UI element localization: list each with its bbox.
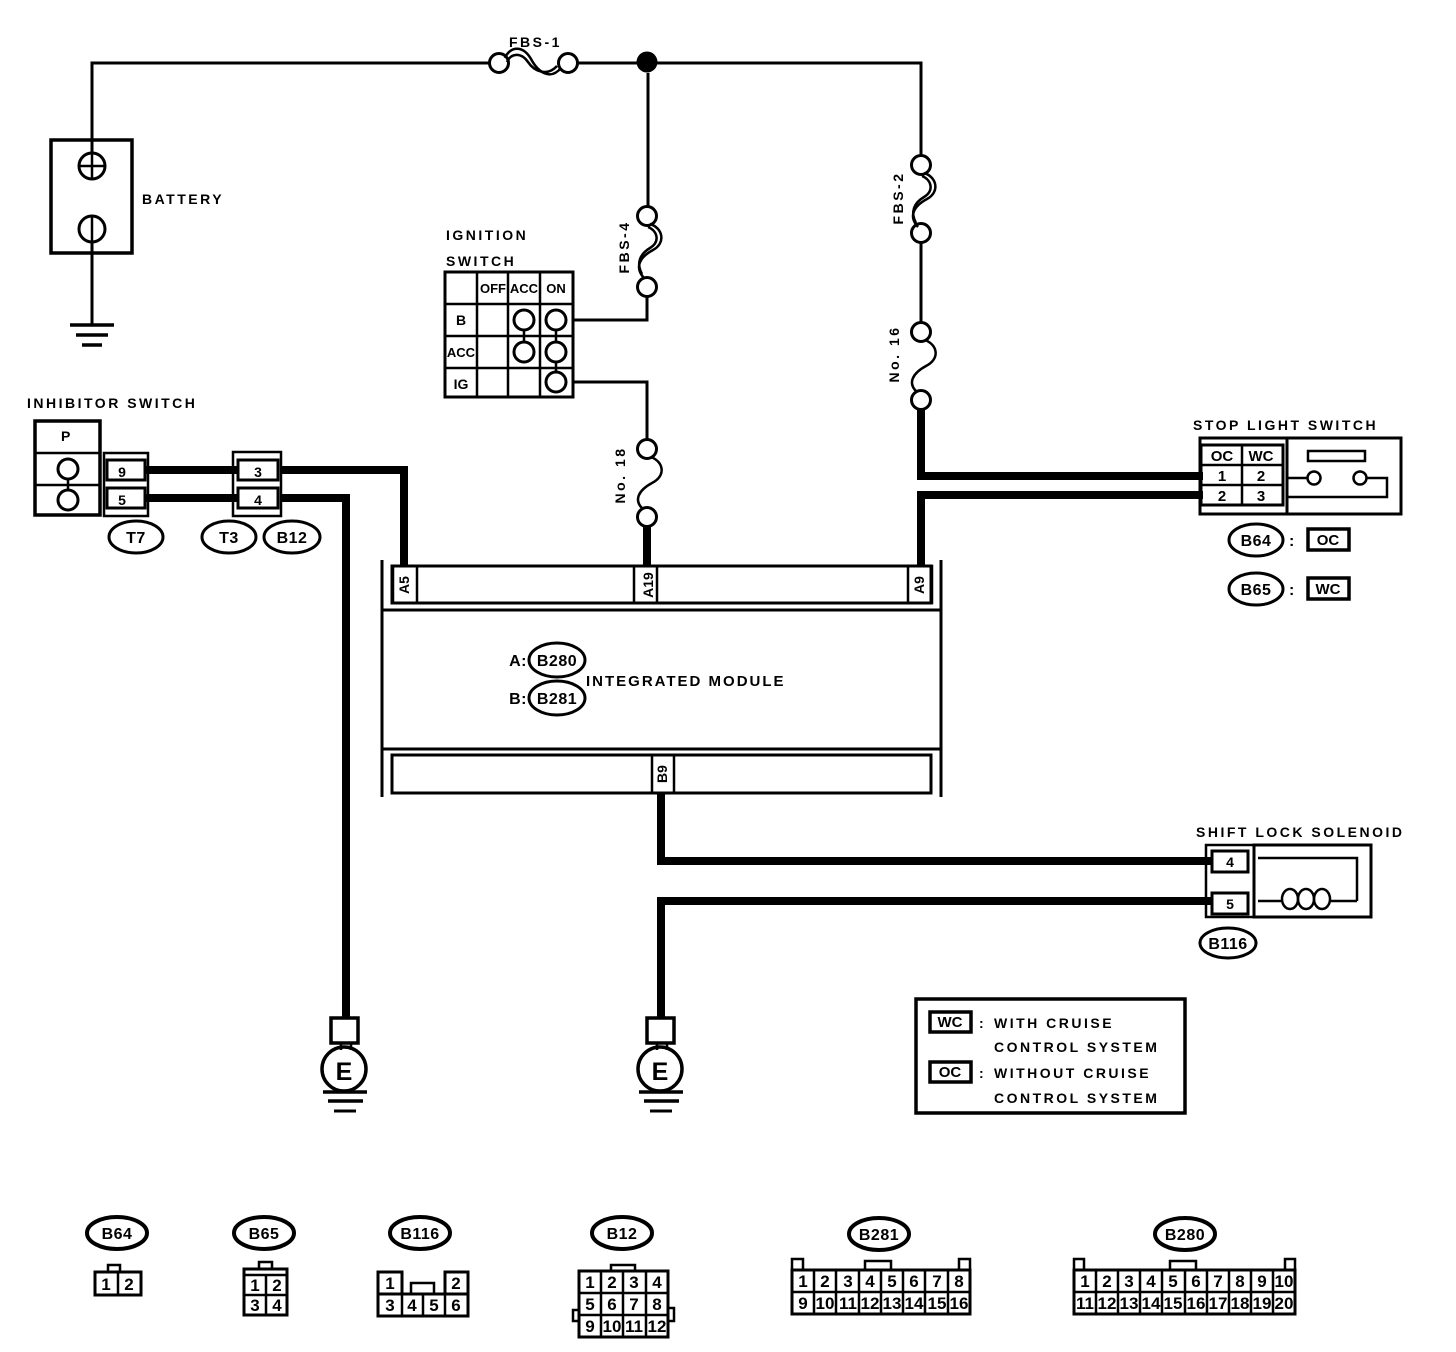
svg-text:16: 16: [1187, 1294, 1206, 1313]
svg-text:WC: WC: [938, 1014, 963, 1031]
svg-text:ACC: ACC: [447, 345, 476, 360]
pin B9: [652, 755, 674, 793]
svg-text:9: 9: [118, 464, 126, 480]
svg-text:SHIFT LOCK SOLENOID: SHIFT LOCK SOLENOID: [1196, 824, 1405, 840]
svg-text:5: 5: [887, 1272, 896, 1291]
svg-text:B:: B:: [509, 691, 527, 708]
wire inhibitor pin 5 to pin 4: [145, 494, 238, 502]
svg-text:B281: B281: [537, 691, 577, 708]
svg-text:11: 11: [1076, 1294, 1094, 1313]
svg-text:6: 6: [1191, 1272, 1200, 1291]
wire pin 3 to module A5: [280, 470, 404, 566]
svg-text:B64: B64: [102, 1226, 133, 1243]
svg-text:10: 10: [1275, 1272, 1294, 1291]
svg-text:9: 9: [798, 1294, 807, 1313]
connector T3: [202, 521, 256, 553]
svg-text:9: 9: [1257, 1272, 1266, 1291]
wire FBS-4 to ignition B: [573, 297, 647, 320]
svg-text:1: 1: [798, 1272, 807, 1291]
svg-text:5: 5: [1226, 896, 1234, 912]
ground (battery): [70, 325, 114, 345]
svg-text:8: 8: [652, 1295, 661, 1314]
svg-text::: :: [1289, 582, 1295, 599]
svg-text::: :: [979, 1015, 986, 1031]
svg-text:5: 5: [1168, 1272, 1177, 1291]
svg-text:OC: OC: [939, 1064, 962, 1081]
svg-text:3: 3: [385, 1296, 394, 1315]
svg-text:FBS-2: FBS-2: [890, 172, 906, 225]
svg-text:2: 2: [820, 1272, 829, 1291]
svg-text:B: B: [456, 312, 466, 328]
svg-text:7: 7: [932, 1272, 941, 1291]
svg-text:B12: B12: [607, 1226, 638, 1243]
wire No.16 to stop light switch pin 1: [921, 408, 1203, 476]
svg-text:10: 10: [816, 1294, 835, 1313]
svg-text:19: 19: [1253, 1294, 1272, 1313]
svg-text:7: 7: [629, 1295, 638, 1314]
svg-text:5: 5: [118, 492, 126, 508]
wire junction down to FBS-4: [647, 73, 650, 206]
svg-text:3: 3: [843, 1272, 852, 1291]
svg-text:A5: A5: [396, 576, 412, 594]
svg-text:9: 9: [585, 1317, 594, 1336]
svg-text:OC: OC: [1211, 448, 1234, 465]
svg-text:4: 4: [254, 492, 262, 508]
connector T7: [109, 521, 163, 553]
connector B64 pinout: [87, 1217, 147, 1249]
svg-text:B280: B280: [537, 653, 577, 670]
svg-text:4: 4: [272, 1296, 282, 1315]
svg-text:WC: WC: [1249, 448, 1274, 465]
svg-text:15: 15: [928, 1294, 947, 1313]
svg-text:3: 3: [629, 1273, 638, 1292]
connector pins 3/4: [233, 452, 281, 516]
svg-text:FBS-1: FBS-1: [509, 34, 562, 50]
svg-text:A19: A19: [640, 572, 656, 598]
svg-text:6: 6: [607, 1295, 616, 1314]
fuse FBS-4: [638, 207, 657, 297]
wire No.18 to module A19: [643, 523, 651, 566]
svg-text:14: 14: [1142, 1294, 1161, 1313]
svg-text:4: 4: [652, 1273, 662, 1292]
svg-text:8: 8: [1235, 1272, 1244, 1291]
svg-text:13: 13: [1120, 1294, 1139, 1313]
svg-text:6: 6: [451, 1296, 460, 1315]
connector B12: [264, 521, 320, 553]
svg-text:P: P: [61, 428, 70, 444]
ground E left: [322, 1018, 367, 1111]
connector B65 pinout: [234, 1217, 294, 1249]
fuse No. 16: [912, 323, 931, 410]
svg-text:B64: B64: [1241, 533, 1272, 550]
pin A19: [634, 566, 657, 603]
svg-text:1: 1: [1080, 1272, 1089, 1291]
svg-text:B65: B65: [249, 1226, 280, 1243]
legend box: [916, 999, 1185, 1113]
svg-text:SWITCH: SWITCH: [446, 253, 516, 269]
svg-text:2: 2: [607, 1273, 616, 1292]
svg-text:1: 1: [101, 1275, 110, 1294]
fuse FBS-1: [490, 54, 578, 73]
svg-text:1: 1: [1218, 468, 1226, 485]
WIRES_THICK: [145, 408, 1212, 1018]
svg-text:INTEGRATED MODULE: INTEGRATED MODULE: [586, 673, 786, 690]
svg-text:3: 3: [1124, 1272, 1133, 1291]
svg-text:OC: OC: [1317, 532, 1340, 549]
svg-text:4: 4: [1146, 1272, 1156, 1291]
svg-text:18: 18: [1231, 1294, 1250, 1313]
connector B12 pinout: [592, 1217, 652, 1249]
svg-text:4: 4: [407, 1296, 417, 1315]
svg-text:2: 2: [272, 1276, 281, 1295]
svg-text:3: 3: [254, 464, 262, 480]
svg-text:16: 16: [950, 1294, 969, 1313]
svg-text:CONTROL SYSTEM: CONTROL SYSTEM: [994, 1090, 1159, 1106]
svg-text:WITHOUT CRUISE: WITHOUT CRUISE: [994, 1065, 1151, 1081]
svg-text:STOP LIGHT SWITCH: STOP LIGHT SWITCH: [1193, 417, 1378, 433]
connector B281 pinout: [849, 1218, 909, 1250]
inhibitor connector pins 9/5: [104, 453, 148, 516]
svg-text:12: 12: [861, 1294, 880, 1313]
svg-text:2: 2: [124, 1275, 133, 1294]
svg-text:FBS-4: FBS-4: [616, 221, 632, 274]
svg-text:2: 2: [1218, 488, 1226, 505]
svg-text:WC: WC: [1316, 581, 1341, 598]
svg-text:13: 13: [883, 1294, 902, 1313]
junction node: [637, 52, 658, 73]
fuse No. 18: [638, 440, 657, 527]
svg-text:CONTROL SYSTEM: CONTROL SYSTEM: [994, 1039, 1159, 1055]
svg-text:E: E: [336, 1058, 353, 1086]
wire inhibitor pin 9 to pin 3: [145, 466, 238, 474]
connector B64 note: [1229, 524, 1283, 556]
svg-text:B116: B116: [400, 1226, 439, 1243]
svg-text:11: 11: [625, 1317, 643, 1336]
svg-text:7: 7: [1213, 1272, 1222, 1291]
svg-text:5: 5: [585, 1295, 594, 1314]
pin A9: [908, 566, 932, 603]
svg-text:ACC: ACC: [510, 281, 539, 296]
svg-text:T7: T7: [126, 530, 146, 547]
svg-text:B281: B281: [859, 1227, 899, 1244]
svg-text:T3: T3: [219, 530, 239, 547]
wire ignition IG to fuse No.18: [573, 382, 647, 439]
fuse FBS-2: [912, 156, 931, 243]
svg-text:11: 11: [839, 1294, 857, 1313]
svg-text::: :: [979, 1065, 986, 1081]
svg-text:4: 4: [1226, 854, 1234, 870]
battery: [51, 140, 132, 253]
wire FBS-1 to junction to FBS-2: [578, 63, 921, 156]
wire battery to FBS-1: [92, 63, 489, 153]
wire battery to ground: [91, 242, 94, 325]
svg-text:3: 3: [250, 1296, 259, 1315]
svg-text:B65: B65: [1241, 582, 1272, 599]
ground E right: [638, 1018, 683, 1111]
svg-text:2: 2: [1257, 468, 1265, 485]
connector B65 note: [1229, 573, 1283, 605]
connector B116: [1200, 928, 1256, 958]
svg-text::: :: [1289, 533, 1295, 550]
wire FBS-2 to No.16: [920, 243, 923, 322]
svg-text:E: E: [652, 1058, 669, 1086]
svg-text:12: 12: [648, 1317, 667, 1336]
svg-text:12: 12: [1098, 1294, 1117, 1313]
connector B280 pinout: [1155, 1218, 1215, 1250]
svg-text:2: 2: [1102, 1272, 1111, 1291]
wire stop light switch pin 2 to module A9: [921, 495, 1203, 566]
svg-text:5: 5: [429, 1296, 438, 1315]
wire pin 4 to left ground: [280, 498, 346, 1018]
svg-text:8: 8: [954, 1272, 963, 1291]
svg-text:IG: IG: [454, 376, 469, 392]
svg-text:ON: ON: [546, 281, 566, 296]
svg-text:1: 1: [585, 1273, 594, 1292]
svg-text:15: 15: [1164, 1294, 1183, 1313]
svg-text:IGNITION: IGNITION: [446, 227, 528, 243]
svg-text:B280: B280: [1165, 1227, 1205, 1244]
svg-text:OFF: OFF: [480, 281, 506, 296]
svg-text:17: 17: [1209, 1294, 1228, 1313]
svg-text:B9: B9: [654, 765, 670, 783]
connector B116 pinout: [390, 1217, 450, 1249]
svg-text:1: 1: [250, 1276, 259, 1295]
svg-text:A:: A:: [509, 653, 527, 670]
integrated module: [382, 560, 941, 797]
svg-text:B116: B116: [1208, 936, 1247, 953]
wire module B9 to solenoid pin 4: [661, 793, 1212, 861]
wire solenoid pin 5 to right ground: [661, 901, 1212, 1018]
WIRES_THIN: [92, 63, 921, 439]
svg-text:10: 10: [603, 1317, 622, 1336]
svg-text:14: 14: [905, 1294, 924, 1313]
svg-text:B12: B12: [277, 530, 308, 547]
svg-text:BATTERY: BATTERY: [142, 191, 224, 207]
svg-text:6: 6: [909, 1272, 918, 1291]
svg-text:INHIBITOR SWITCH: INHIBITOR SWITCH: [27, 395, 197, 411]
pin A5: [393, 566, 417, 603]
svg-text:No. 18: No. 18: [612, 446, 628, 503]
svg-text:4: 4: [865, 1272, 875, 1291]
svg-text:WITH CRUISE: WITH CRUISE: [994, 1015, 1114, 1031]
svg-text:No. 16: No. 16: [886, 325, 902, 382]
svg-text:20: 20: [1275, 1294, 1294, 1313]
svg-text:1: 1: [385, 1274, 394, 1293]
svg-text:3: 3: [1257, 488, 1265, 505]
svg-text:2: 2: [451, 1274, 460, 1293]
svg-text:A9: A9: [911, 576, 927, 594]
